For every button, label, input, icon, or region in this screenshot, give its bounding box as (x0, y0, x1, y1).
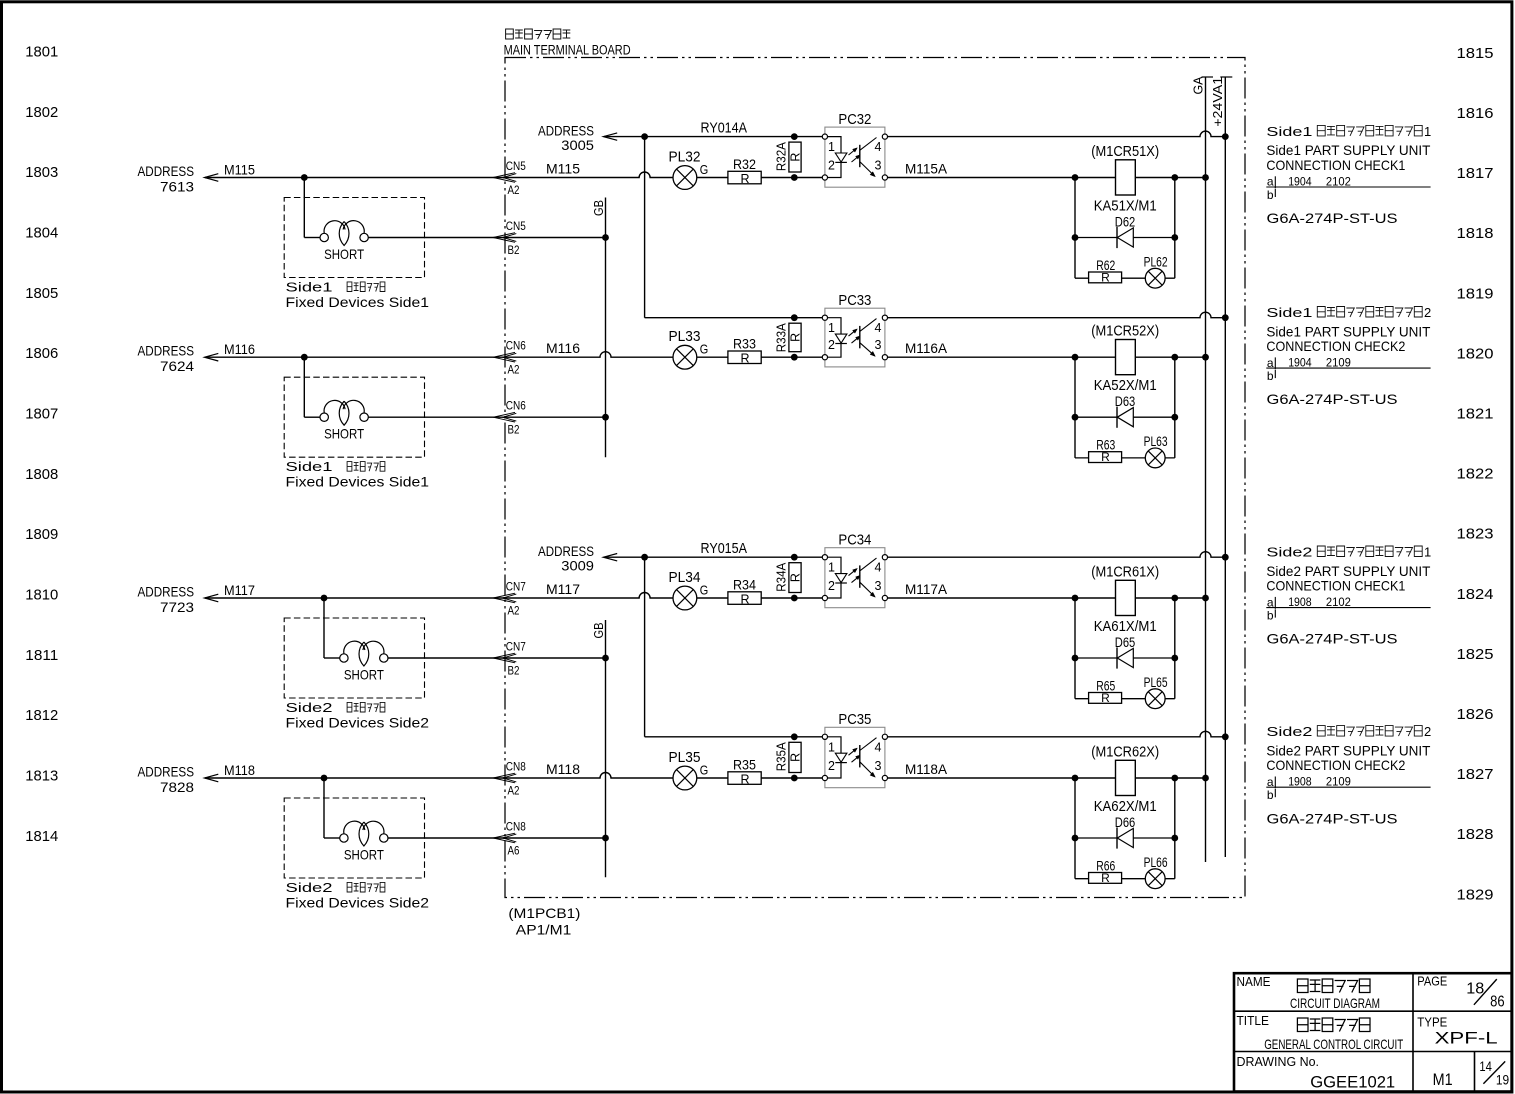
svg-text:1805: 1805 (25, 285, 58, 302)
svg-text:2: 2 (828, 158, 835, 172)
svg-text:7723: 7723 (160, 599, 194, 615)
light arrows inside PC35 (849, 748, 861, 762)
svg-text:2: 2 (1424, 305, 1431, 320)
svg-text:ADDRESS: ADDRESS (138, 764, 195, 780)
svg-text:b: b (1267, 188, 1274, 202)
connector CN8-A2 chevron (493, 773, 515, 783)
svg-text:SHORT: SHORT (344, 847, 384, 863)
svg-text:GGEE1021: GGEE1021 (1310, 1072, 1395, 1091)
wire M118 (outside board) (205, 777, 505, 779)
wire to SHORT plug left pin (304, 416, 320, 418)
resistor R35A (vertical) (789, 742, 801, 772)
svg-text:M1: M1 (1433, 1070, 1453, 1089)
wire bottom branch R65 PL65 (1075, 698, 1175, 700)
svg-text:M118: M118 (546, 761, 580, 777)
svg-text:CONNECTION CHECK1: CONNECTION CHECK1 (1266, 578, 1405, 594)
relay coil KA62X/M1 (M1CR62X) (1116, 760, 1136, 795)
svg-text:Fixed Devices Side2: Fixed Devices Side2 (286, 895, 430, 911)
junction on wire M118 (321, 775, 328, 782)
diode D63 (flyback) (1075, 407, 1175, 428)
svg-text:CN8: CN8 (506, 760, 526, 774)
net GB vertical line (blocks 3-4) (605, 620, 607, 877)
svg-text:1802: 1802 (25, 104, 58, 121)
svg-text:1824: 1824 (1457, 586, 1494, 603)
svg-text:M118: M118 (224, 762, 255, 778)
junction on wire M115 (301, 174, 308, 181)
arrow to ADDRESS 7723 (205, 594, 219, 602)
svg-text:R: R (740, 352, 749, 366)
resistor R66 (1089, 873, 1122, 884)
svg-text:Fixed Devices Side1: Fixed Devices Side1 (286, 294, 430, 310)
svg-text:1804: 1804 (25, 225, 58, 242)
svg-text:2102: 2102 (1326, 174, 1351, 188)
svg-text:1828: 1828 (1457, 826, 1494, 843)
lamp PL62 (1145, 268, 1165, 288)
wire M116 (outside board) (205, 356, 505, 358)
title block page number 18/86 (1466, 979, 1504, 1010)
light arrows inside PC32 (849, 148, 861, 162)
fixed devices dashed box (Side1) (284, 377, 424, 457)
connector CN5-A2 chevron (493, 173, 515, 183)
svg-text:1811: 1811 (25, 647, 58, 664)
wire bottom branch R63 PL63 (1075, 457, 1175, 459)
svg-text:DRAWING No.: DRAWING No. (1237, 1054, 1320, 1069)
junction relay branch right (1171, 174, 1178, 181)
svg-text:1819: 1819 (1457, 285, 1494, 302)
svg-text:GA: GA (1191, 76, 1206, 94)
svg-text:2109: 2109 (1326, 355, 1351, 369)
resistor R32 (728, 171, 761, 184)
wire relay parallel branch right vertical (1174, 778, 1176, 879)
junction relay branch right (1171, 595, 1178, 602)
svg-text:M118A: M118A (905, 761, 948, 777)
svg-text:3: 3 (875, 759, 882, 773)
svg-text:3005: 3005 (561, 137, 594, 153)
svg-text:RY015A: RY015A (701, 540, 748, 557)
wire bottom branch R66 PL66 (1075, 878, 1175, 880)
junction resistor R32A bottom (791, 174, 798, 181)
svg-text:R: R (740, 172, 749, 186)
junction RY015A / drop wire (641, 554, 648, 561)
wire M117 to lamp PL34 (with crossover hop) (503, 593, 673, 598)
svg-text:KA51X/M1: KA51X/M1 (1094, 199, 1157, 215)
junction on bus GA (1202, 775, 1209, 782)
svg-text:ADDRESS: ADDRESS (138, 343, 195, 359)
svg-text:GB: GB (591, 200, 606, 216)
svg-text:b: b (1267, 609, 1274, 623)
svg-text:1821: 1821 (1457, 406, 1494, 423)
resistor R34 (728, 592, 761, 605)
svg-text:1816: 1816 (1457, 105, 1494, 122)
note a/b separator line (1266, 786, 1430, 788)
svg-text:3: 3 (875, 579, 882, 593)
wire M118A (888, 777, 1206, 779)
svg-text:R34A: R34A (774, 562, 789, 591)
fixed devices dashed box (Side2) (284, 618, 424, 698)
svg-text:M116A: M116A (905, 340, 948, 356)
left margin row numbers 1801-1814 (25, 44, 58, 845)
wire RY014A (top) (604, 136, 822, 138)
arrow to ADDRESS 7624 (205, 353, 219, 361)
junction on bus GA (1202, 354, 1209, 361)
wire lamp to resistor R35 (697, 777, 728, 779)
junction diode D63 right (1171, 414, 1178, 421)
wire relay parallel branch right vertical (1174, 357, 1176, 458)
svg-text:R: R (740, 773, 749, 787)
note a-row reference (1267, 775, 1351, 789)
wire M115A (888, 177, 1206, 179)
svg-text:PC33: PC33 (838, 292, 871, 309)
junction diode D62 left (1072, 234, 1079, 241)
svg-text:GB: GB (591, 623, 606, 639)
fixed devices dashed box (Side2) (284, 798, 424, 878)
optocoupler PC32 (822, 127, 887, 187)
note a-row reference (1267, 174, 1351, 188)
wire connector CN8-A6 to GB (503, 837, 606, 839)
relay coil KA51X/M1 (M1CR51X) (1116, 160, 1136, 195)
junction on bus +24VA1 (1222, 133, 1229, 140)
junction resistor R34A top (791, 554, 798, 561)
title block frame (1234, 973, 1512, 1091)
junction diode D65 right (1171, 655, 1178, 662)
junction relay branch right (1171, 775, 1178, 782)
junction on bus +24VA1 (1222, 554, 1229, 561)
wire lamp to resistor R33 (697, 356, 728, 358)
svg-text:SHORT: SHORT (344, 667, 384, 683)
svg-text:2: 2 (828, 579, 835, 593)
svg-text:CIRCUIT DIAGRAM: CIRCUIT DIAGRAM (1290, 995, 1380, 1011)
svg-text:G: G (700, 163, 709, 177)
wire relay parallel branch right vertical (1174, 178, 1176, 279)
lamp PL32 (G) (673, 166, 697, 190)
svg-text:ADDRESS: ADDRESS (138, 163, 195, 179)
svg-text:PL33: PL33 (669, 328, 701, 345)
svg-text:1: 1 (1424, 545, 1431, 560)
junction diode D62 right (1171, 234, 1178, 241)
svg-text:PC35: PC35 (838, 711, 871, 728)
svg-text:1809: 1809 (25, 526, 58, 543)
svg-text:KA52X/M1: KA52X/M1 (1094, 378, 1157, 394)
resistor R33 (728, 351, 761, 364)
junction on GB (602, 414, 609, 421)
wire resistor R35 to optocoupler pin 2 (761, 777, 822, 779)
svg-text:R: R (1101, 871, 1110, 885)
svg-text:+24VA1: +24VA1 (1210, 77, 1225, 127)
junction relay branch left (1072, 354, 1079, 361)
wire from SHORT plug right pin to connector (368, 416, 505, 418)
wire relay parallel branch left vertical (1074, 357, 1076, 458)
svg-text:D66: D66 (1115, 815, 1136, 830)
svg-text:Side1: Side1 (1266, 305, 1312, 320)
label メイン中継基板 (board name japanese) (506, 29, 571, 39)
wire PC35 pin4 to +24VA1 (hop over GA) (888, 731, 1226, 737)
phototransistor inside PC33 (860, 319, 877, 357)
svg-text:A2: A2 (508, 363, 520, 377)
arrow to ADDRESS 3009 (603, 554, 617, 561)
junction on GB (602, 835, 609, 842)
resistor R35 (728, 772, 761, 785)
svg-text:Side2: Side2 (1266, 724, 1312, 739)
junction on bus GA (1202, 174, 1209, 181)
svg-text:Side1 PART SUPPLY UNIT: Side1 PART SUPPLY UNIT (1266, 323, 1430, 339)
connector CN6-A2 chevron (493, 352, 515, 362)
svg-text:19: 19 (1496, 1073, 1509, 1088)
svg-text:R: R (789, 333, 803, 342)
svg-text:KA62X/M1: KA62X/M1 (1094, 799, 1157, 815)
note b-row reference (1267, 609, 1275, 623)
svg-text:4: 4 (875, 321, 882, 335)
fixed devices dashed box (Side1) (284, 198, 424, 278)
phototransistor inside PC34 (860, 558, 877, 597)
wire PC34 pin4 to +24VA1 (hop over GA) (888, 552, 1226, 558)
note b-row reference (1267, 788, 1275, 802)
svg-text:Side1: Side1 (1266, 124, 1312, 139)
wire M116A (888, 356, 1206, 358)
svg-text:R35A: R35A (774, 742, 789, 771)
svg-text:R35: R35 (733, 758, 756, 773)
svg-text:86: 86 (1490, 994, 1505, 1011)
wire to SHORT plug left pin (324, 657, 340, 659)
resistor R63 (1089, 452, 1122, 463)
relay coil KA61X/M1 (M1CR61X) (1116, 580, 1136, 615)
svg-text:4: 4 (875, 140, 882, 154)
diode D62 (flyback) (1075, 227, 1175, 248)
svg-text:R32A: R32A (774, 142, 789, 171)
svg-text:1808: 1808 (25, 466, 58, 483)
short plug SHORT (jumper) (340, 821, 388, 846)
junction diode D65 left (1072, 655, 1079, 662)
svg-text:Side2: Side2 (286, 880, 333, 895)
svg-text:1810: 1810 (25, 587, 58, 604)
diode D65 (flyback) (1075, 647, 1175, 668)
svg-text:CN7: CN7 (506, 640, 526, 654)
svg-text:A2: A2 (508, 183, 520, 197)
svg-text:2109: 2109 (1326, 775, 1351, 789)
wire lamp to resistor R32 (697, 177, 728, 179)
svg-text:14: 14 (1479, 1059, 1492, 1074)
svg-text:R33: R33 (733, 337, 756, 352)
svg-text:PC32: PC32 (838, 111, 871, 128)
phototransistor inside PC35 (860, 738, 877, 778)
svg-text:(M1CR52X): (M1CR52X) (1091, 324, 1159, 340)
svg-text:PL32: PL32 (669, 149, 701, 166)
wire drop to SHORT plug (303, 357, 305, 417)
note b-row reference (1267, 188, 1275, 202)
wire drop to SHORT plug (323, 598, 325, 658)
short plug SHORT (jumper) (320, 400, 368, 425)
junction relay branch right (1171, 354, 1178, 361)
svg-text:R33A: R33A (774, 323, 789, 352)
svg-text:Side1 PART SUPPLY UNIT: Side1 PART SUPPLY UNIT (1266, 142, 1430, 158)
svg-text:1826: 1826 (1457, 706, 1494, 723)
junction on wire M117 (321, 595, 328, 602)
svg-text:R: R (789, 153, 803, 162)
svg-text:RY014A: RY014A (701, 120, 748, 137)
svg-text:A2: A2 (508, 784, 520, 798)
svg-text:CN6: CN6 (506, 399, 526, 413)
junction resistor R33A bottom (791, 354, 798, 361)
svg-text:1: 1 (828, 321, 835, 335)
wire from SHORT plug right pin to connector (388, 657, 505, 659)
svg-text:Side1: Side1 (286, 280, 333, 295)
connector CN5-B2 chevron (493, 233, 515, 243)
svg-text:G: G (700, 764, 709, 778)
svg-text:G: G (700, 584, 709, 598)
relay coil KA52X/M1 (M1CR52X) (1116, 340, 1136, 375)
resistor R62 (1089, 272, 1122, 283)
junction RY014A / drop wire (641, 133, 648, 140)
svg-text:1817: 1817 (1457, 165, 1494, 182)
resistor R32A (vertical) (789, 142, 801, 172)
svg-text:1: 1 (828, 561, 835, 575)
title block 電気回路線図 (1297, 979, 1370, 993)
connector CN6-B2 chevron (493, 412, 515, 422)
svg-text:1908: 1908 (1288, 775, 1312, 789)
junction relay branch left (1072, 174, 1079, 181)
svg-text:7613: 7613 (160, 179, 194, 195)
svg-text:Side2 PART SUPPLY UNIT: Side2 PART SUPPLY UNIT (1266, 563, 1430, 579)
junction resistor R35A top (791, 733, 798, 740)
svg-text:CN6: CN6 (506, 339, 526, 353)
resistor R33A (vertical) (789, 323, 801, 352)
svg-text:R: R (740, 593, 749, 607)
svg-text:M116: M116 (224, 341, 255, 357)
wire resistor R33 to optocoupler pin 2 (761, 356, 822, 358)
svg-text:B2: B2 (508, 243, 520, 257)
svg-text:18: 18 (1466, 980, 1484, 997)
junction resistor R32A top (791, 133, 798, 140)
svg-text:M117: M117 (224, 582, 255, 598)
connector CN8-A6 chevron (493, 833, 515, 843)
note a/b separator line (1266, 367, 1430, 369)
junction resistor R34A bottom (791, 595, 798, 602)
wire optocoupler PC33 pin1 feed (top) (645, 317, 823, 319)
optocoupler PC33 (822, 308, 887, 367)
svg-text:1827: 1827 (1457, 766, 1494, 783)
arrow to ADDRESS 7613 (205, 174, 219, 182)
svg-text:CN5: CN5 (506, 159, 526, 173)
svg-text:3: 3 (875, 158, 882, 172)
bus +24VA1 top tick (1220, 76, 1232, 78)
svg-text:1: 1 (828, 140, 835, 154)
LED inside PC33 (828, 318, 847, 358)
svg-text:(M1CR61X): (M1CR61X) (1091, 565, 1159, 581)
svg-text:1829: 1829 (1457, 886, 1494, 903)
junction on GB (602, 234, 609, 241)
title block 総合制御回路 (1297, 1018, 1370, 1032)
svg-text:M115: M115 (546, 161, 580, 177)
svg-text:PL66: PL66 (1144, 855, 1168, 870)
svg-text:M115: M115 (224, 162, 255, 178)
svg-text:TITLE: TITLE (1237, 1013, 1270, 1028)
svg-text:G: G (700, 343, 709, 357)
svg-text:M115A: M115A (905, 161, 948, 177)
svg-text:2: 2 (828, 759, 835, 773)
svg-text:(M1PCB1): (M1PCB1) (508, 905, 580, 921)
wire M116 to lamp PL33 (with crossover hop) (503, 352, 673, 358)
svg-text:1822: 1822 (1457, 466, 1494, 483)
svg-text:1904: 1904 (1288, 355, 1312, 369)
short plug SHORT (jumper) (320, 221, 368, 246)
svg-text:TYPE: TYPE (1417, 1015, 1447, 1030)
svg-text:NAME: NAME (1237, 974, 1271, 989)
wire relay parallel branch right vertical (1174, 598, 1176, 699)
wire PC33 pin4 to +24VA1 (hop over GA) (888, 312, 1226, 318)
wire connector CN7-B2 to GB (503, 657, 606, 659)
wire RY014A vertical drop to PC33 (644, 137, 646, 318)
junction on bus +24VA1 (1222, 314, 1229, 321)
svg-text:1908: 1908 (1288, 595, 1312, 609)
svg-text:R34: R34 (733, 578, 756, 593)
svg-text:M117A: M117A (905, 581, 948, 597)
wire from SHORT plug right pin to connector (368, 237, 505, 239)
svg-text:G6A-274P-ST-US: G6A-274P-ST-US (1267, 631, 1398, 647)
junction on GB (602, 655, 609, 662)
note b-row reference (1267, 369, 1275, 383)
junction on bus GA (1202, 595, 1209, 602)
lamp PL66 (1145, 869, 1165, 889)
svg-text:1904: 1904 (1288, 174, 1312, 188)
board M1PCB1 MAIN TERMINAL BOARD dashed boundary (505, 58, 1245, 898)
svg-text:GENERAL CONTROL CIRCUIT: GENERAL CONTROL CIRCUIT (1264, 1036, 1403, 1052)
LED inside PC35 (828, 737, 847, 778)
svg-text:XPF-L: XPF-L (1435, 1029, 1498, 1048)
wire to SHORT plug left pin (304, 237, 320, 239)
connector CN7-B2 chevron (493, 653, 515, 663)
svg-text:b: b (1267, 369, 1274, 383)
wire M118 to lamp PL35 (with crossover hop) (503, 773, 673, 779)
junction relay branch left (1072, 775, 1079, 782)
svg-text:M116: M116 (546, 340, 580, 356)
svg-text:R32: R32 (733, 157, 756, 172)
svg-text:(M1CR51X): (M1CR51X) (1091, 144, 1159, 160)
svg-text:7828: 7828 (160, 779, 194, 795)
wire relay parallel branch left vertical (1074, 598, 1076, 699)
connector CN7-A2 chevron (493, 593, 515, 603)
arrow to ADDRESS 3005 (603, 133, 617, 140)
svg-text:1825: 1825 (1457, 646, 1494, 663)
svg-text:PL34: PL34 (669, 569, 701, 586)
svg-text:4: 4 (875, 561, 882, 575)
svg-text:D62: D62 (1115, 214, 1136, 229)
svg-text:3: 3 (875, 338, 882, 352)
junction diode D66 right (1171, 835, 1178, 842)
arrow to ADDRESS 7828 (205, 774, 219, 782)
svg-text:SHORT: SHORT (324, 426, 364, 442)
wire RY015A vertical drop to PC35 (644, 557, 646, 737)
wire resistor R34 to optocoupler pin 2 (761, 597, 822, 599)
svg-text:AP1/M1: AP1/M1 (516, 922, 572, 938)
LED inside PC34 (828, 557, 847, 598)
svg-text:PL65: PL65 (1144, 675, 1168, 690)
svg-text:Side2: Side2 (286, 700, 333, 715)
wire drop to SHORT plug (303, 178, 305, 238)
svg-text:CONNECTION CHECK2: CONNECTION CHECK2 (1266, 757, 1405, 773)
junction resistor R35A bottom (791, 775, 798, 782)
svg-text:1813: 1813 (25, 768, 58, 785)
wire to SHORT plug left pin (324, 837, 340, 839)
wire M117 (outside board) (205, 597, 505, 599)
wire connector CN6-B2 to GB (503, 416, 606, 418)
junction on bus +24VA1 (1222, 733, 1229, 740)
svg-text:PL62: PL62 (1144, 255, 1168, 270)
svg-text:1806: 1806 (25, 345, 58, 362)
bus GA top tick (1202, 76, 1214, 78)
wire M117A (888, 597, 1206, 599)
svg-text:G6A-274P-ST-US: G6A-274P-ST-US (1267, 391, 1398, 407)
svg-text:G6A-274P-ST-US: G6A-274P-ST-US (1267, 210, 1398, 226)
svg-text:1820: 1820 (1457, 345, 1494, 362)
